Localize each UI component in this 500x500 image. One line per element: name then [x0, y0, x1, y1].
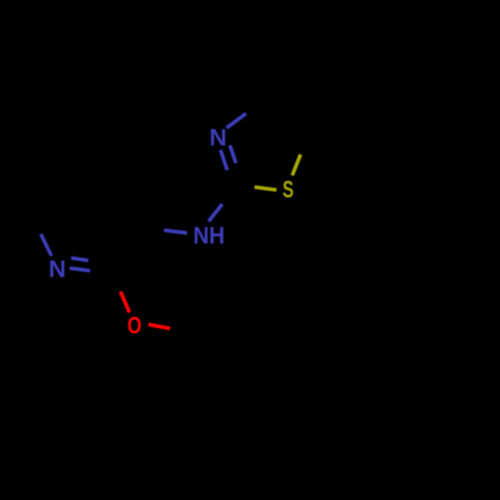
svg-text:NH: NH	[193, 223, 225, 250]
svg-text:S: S	[283, 177, 294, 204]
svg-text:N: N	[49, 256, 66, 283]
svg-text:N: N	[209, 124, 226, 151]
svg-text:O: O	[127, 313, 141, 340]
